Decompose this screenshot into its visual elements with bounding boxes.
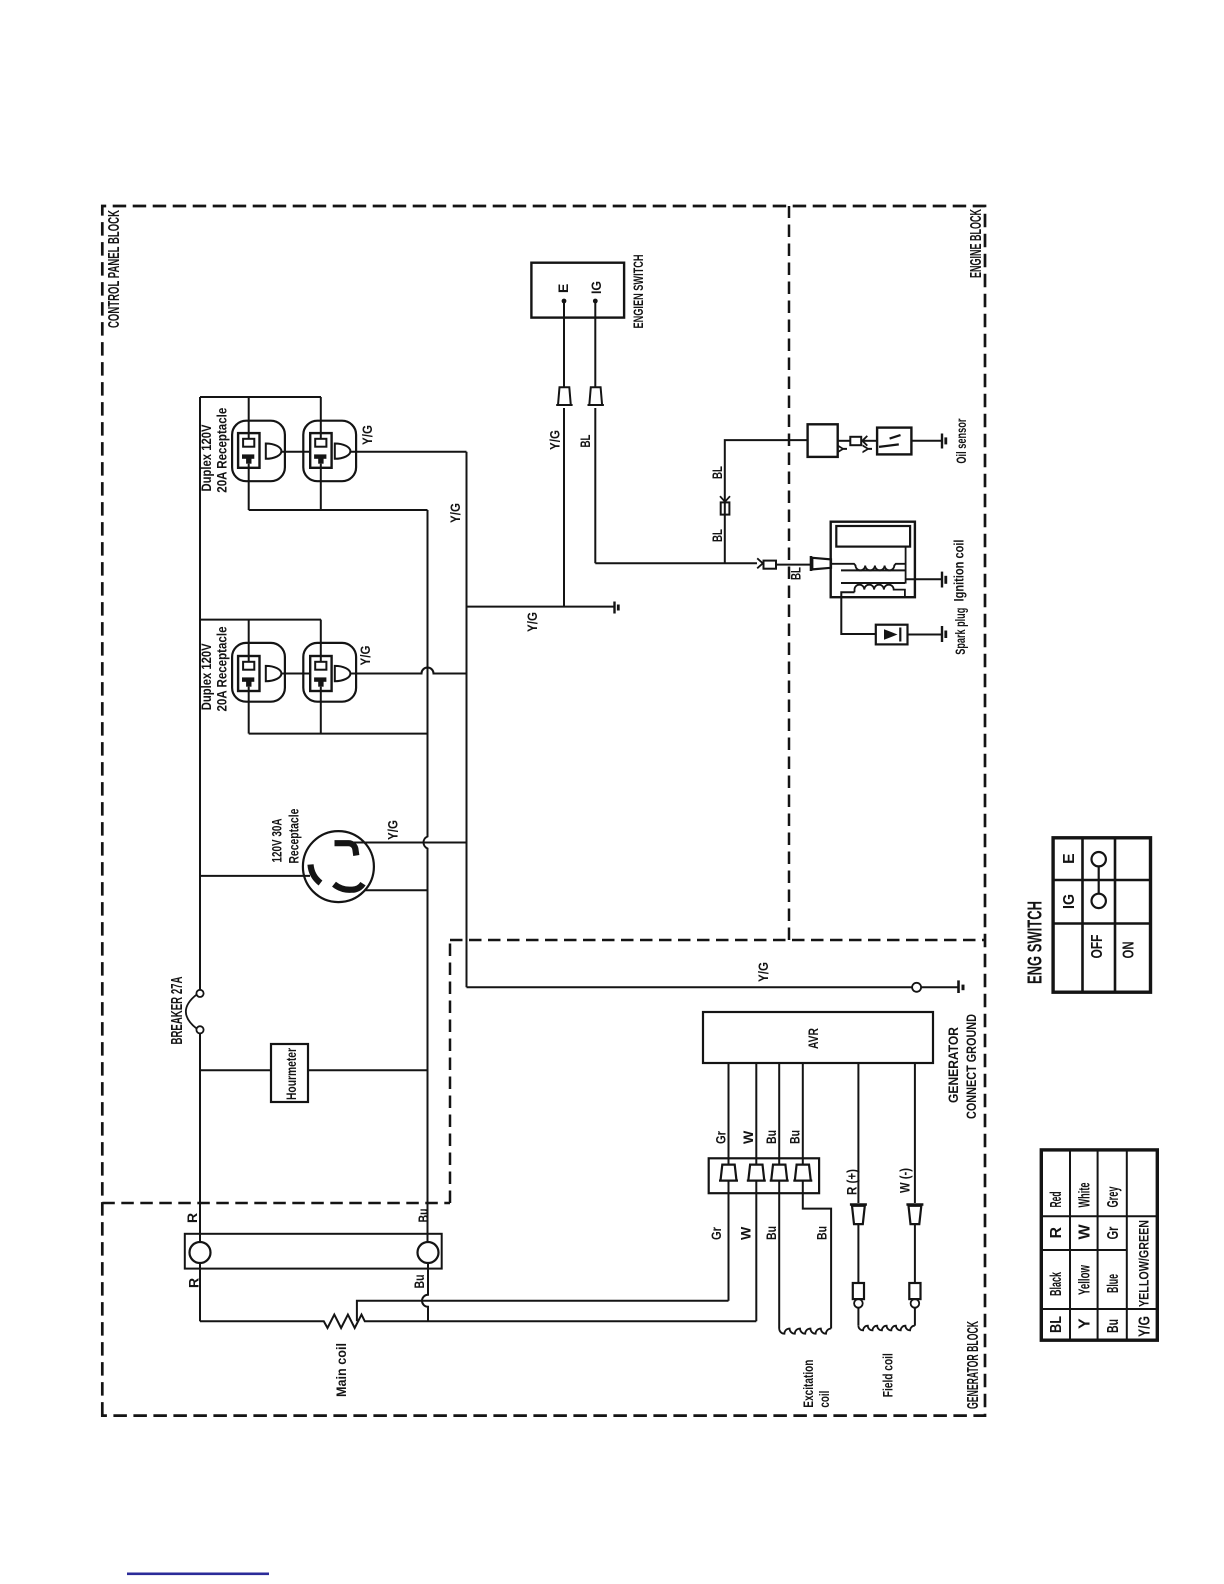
svg-text:W: W <box>738 1226 754 1240</box>
wire R rail (hot) from terminal strip to duplex 1 feeder <box>199 397 201 1242</box>
30A receptacle blade slot upper <box>311 865 321 884</box>
oil sensor unit box <box>808 424 838 457</box>
connector R+ bullet flange <box>850 1203 867 1206</box>
30A receptacle blade slot right hook <box>335 843 357 855</box>
wire duplex 1 right feeder from R rail <box>200 396 321 398</box>
wire BL branch tee to oil sensor <box>725 440 808 563</box>
duplex 2 outlet C slot frame <box>238 656 259 691</box>
svg-text:Y/G: Y/G <box>524 612 540 632</box>
connector branch male rect <box>721 502 730 514</box>
generator connect ground symbol <box>957 980 960 993</box>
svg-text:Ignition coil: Ignition coil <box>951 540 967 602</box>
duplex 2 outlet C ground D slot <box>266 666 282 681</box>
duplex 2 outlet D body <box>303 643 356 702</box>
blue underline mark bottom-left <box>127 1573 269 1576</box>
wire duplex 1 branch to outlet B <box>320 397 322 439</box>
connector BL male rect <box>764 561 777 569</box>
duplex 1 outlet B ground D slot <box>335 444 351 459</box>
svg-text:Field coil: Field coil <box>880 1353 896 1397</box>
connector R+ lower circle <box>854 1299 863 1308</box>
wire duplex 1 branch to outlet A <box>248 397 250 439</box>
svg-text:AVR: AVR <box>805 1028 821 1049</box>
ignition coil core lines <box>841 570 905 583</box>
svg-text:R: R <box>184 1213 200 1223</box>
terminal Bu circle <box>418 1242 439 1263</box>
connector pin Bu4 <box>793 1165 812 1181</box>
hourmeter box <box>271 1044 308 1102</box>
wire Gr left of block to main coil tap <box>728 1193 730 1301</box>
wire W- connector to lower connector <box>914 1224 916 1283</box>
wire Bu4 jog to excitation coil <box>803 1193 831 1328</box>
wire duplex 1 left feeder to Bu rail <box>249 509 428 511</box>
legend table border <box>1041 1150 1157 1340</box>
oil switch box <box>877 428 911 455</box>
connector IG bullet <box>588 387 604 405</box>
connector pin W <box>747 1165 766 1181</box>
excitation coil winding <box>779 1329 831 1334</box>
svg-text:Bu: Bu <box>763 1130 779 1144</box>
connector oil arrow <box>862 436 867 446</box>
wire 30A Bu drop to Bu rail <box>364 889 427 891</box>
generator ground circle <box>912 983 921 992</box>
svg-text:Y: Y <box>859 444 875 454</box>
switch contact circle IG <box>1092 894 1106 908</box>
oil switch contact <box>879 435 901 447</box>
wire duplex 2 outlet C neutral <box>248 687 250 734</box>
svg-text:Y/G: Y/G <box>547 430 563 450</box>
wire Bu4 from AVR through connector <box>802 1063 804 1193</box>
connector BL arrow <box>757 558 763 568</box>
terminal R circle <box>190 1242 211 1263</box>
svg-text:BREAKER 27A: BREAKER 27A <box>169 976 186 1044</box>
duplex 1 outlet B T slot <box>314 454 326 458</box>
duplex 2 outlet D ground D slot <box>335 666 351 681</box>
duplex 1 outlet B neutral slot <box>315 439 326 447</box>
svg-text:Duplex 120V: Duplex 120V <box>198 643 214 711</box>
svg-text:Gr: Gr <box>713 1131 729 1144</box>
field coil winding <box>858 1326 914 1331</box>
svg-text:Bu: Bu <box>787 1130 803 1144</box>
wire Y/G generator drop to ground <box>467 986 913 988</box>
wire E Y/G to ground tee <box>563 408 565 607</box>
svg-text:OFF: OFF <box>1089 934 1106 958</box>
svg-text:IG: IG <box>588 281 604 294</box>
wire 30A R feed from R rail <box>200 875 310 877</box>
wire E from switch to connector <box>563 301 565 387</box>
svg-text:BL: BL <box>709 529 725 542</box>
duplex 2 outlet D neutral slot <box>315 662 326 670</box>
svg-text:Gr: Gr <box>708 1227 724 1240</box>
wire duplex 1 ground to Y/G rail <box>350 451 466 453</box>
ignition coil interior junction line <box>905 547 907 583</box>
ground symbol 1 <box>613 602 615 614</box>
wire Gr tap from main coil <box>357 1301 729 1322</box>
AVR box <box>703 1012 933 1063</box>
terminal strip <box>185 1234 442 1269</box>
dashed divider generator block horizontal <box>449 940 452 1203</box>
svg-text:CONTROL PANEL BLOCK: CONTROL PANEL BLOCK <box>106 210 123 328</box>
wire R+ to field coil <box>857 1308 859 1326</box>
outer dashed border: CONTROL PANEL / ENGINE / GENERATOR blocks <box>102 206 985 1416</box>
svg-text:CONNECT GROUND: CONNECT GROUND <box>963 1014 979 1119</box>
wire below ground circle <box>921 986 958 988</box>
svg-text:Black: Black <box>1048 1272 1065 1296</box>
connector oil male rect <box>850 437 861 445</box>
connector E bullet <box>556 387 572 405</box>
duplex 2 outlet D T slot <box>314 677 326 681</box>
svg-text:Bu: Bu <box>411 1275 427 1289</box>
svg-text:Y: Y <box>834 444 850 454</box>
spark plug triangle <box>884 629 898 640</box>
eng switch table grid <box>1053 838 1150 992</box>
duplex 2 outlet C T slot <box>242 677 254 681</box>
svg-text:IG: IG <box>1061 894 1078 909</box>
dashed divider generator block vertical <box>102 1202 450 1205</box>
ignition ground symbol <box>941 572 943 588</box>
connector W- lower circle <box>911 1299 920 1308</box>
duplex 2 outlet D slot frame <box>310 656 331 691</box>
wire W- to field coil <box>914 1308 916 1326</box>
dashed divider vertical at x=644 <box>450 939 985 942</box>
duplex 1 outlet A slot frame <box>238 433 259 468</box>
wire duplex 2 branch to outlet D <box>320 620 322 662</box>
svg-text:Bu: Bu <box>415 1209 431 1223</box>
svg-text:Gr: Gr <box>1105 1227 1122 1240</box>
ignition coil outer box <box>831 522 915 598</box>
wire hourmeter to R rail <box>200 1069 271 1071</box>
duplex 2 outlet C body <box>232 643 285 702</box>
svg-text:Duplex 120V: Duplex 120V <box>198 424 214 492</box>
wire R+ from AVR <box>857 1063 859 1203</box>
svg-text:Y/G: Y/G <box>359 425 375 445</box>
wire W- from AVR <box>914 1063 916 1203</box>
svg-text:R (+): R (+) <box>844 1169 860 1195</box>
wire connector to oil switch box <box>863 440 877 442</box>
wire W left of block to main coil end <box>755 1193 757 1321</box>
svg-text:W: W <box>740 1130 756 1144</box>
duplex 1 outlet A ground D slot <box>266 444 282 459</box>
wire W from AVR through connector <box>755 1063 757 1193</box>
duplex 1 outlet A neutral slot <box>243 439 254 447</box>
svg-text:20A Receptacle: 20A Receptacle <box>214 626 230 711</box>
switch contact circle E <box>1092 852 1106 866</box>
svg-text:BL: BL <box>709 466 725 479</box>
svg-text:Y: Y <box>1077 1318 1094 1329</box>
wire IG from switch to connector <box>594 301 596 387</box>
connector BL ignition bullet body <box>812 558 831 570</box>
connector block rect <box>709 1158 819 1193</box>
wire duplex 1 ground link A-B <box>281 451 310 453</box>
svg-text:Red: Red <box>1048 1192 1065 1208</box>
svg-text:Y/G: Y/G <box>1137 1316 1154 1337</box>
svg-text:R: R <box>1048 1227 1065 1239</box>
spark plug ground symbol <box>941 626 943 642</box>
svg-text:YELLOW/GREEN: YELLOW/GREEN <box>1136 1220 1152 1307</box>
connector W- lower rect <box>909 1283 920 1299</box>
connector pin Bu3 <box>770 1165 789 1181</box>
wire BL to ignition coil connector <box>776 564 810 566</box>
wire Y/G rail <box>466 452 468 988</box>
duplex 1 outlet B slot frame <box>310 433 331 468</box>
connector W- bullet flange <box>906 1203 923 1206</box>
wire duplex 2 ground to Y/G rail with hop over Bu rail <box>350 668 466 674</box>
wire hourmeter to Bu rail <box>308 1069 428 1071</box>
30A receptacle blade slot lower-left <box>334 884 363 890</box>
connector R+ lower rect <box>853 1283 864 1299</box>
dashed divider control-panel / engine block <box>788 206 791 940</box>
node E terminal dot <box>562 299 567 304</box>
svg-text:Bu: Bu <box>763 1226 779 1240</box>
ignition coil primary winding <box>831 564 906 571</box>
svg-text:BL: BL <box>577 434 593 447</box>
ignition coil inner rect <box>836 526 910 547</box>
svg-text:20A Receptacle: 20A Receptacle <box>214 408 230 493</box>
wire spark plug to ground <box>908 634 942 636</box>
wire oil sensor box to connector <box>838 440 851 442</box>
wire duplex 2 outlet D neutral <box>320 687 322 734</box>
svg-text:Spark plug: Spark plug <box>952 608 968 655</box>
wire BL vertical drop <box>595 562 757 564</box>
eng switch table border <box>1053 838 1150 992</box>
wire duplex 2 left feeder to Bu rail <box>249 733 428 735</box>
wire ground line 1 vertical <box>467 606 615 608</box>
svg-text:W: W <box>1077 1224 1094 1240</box>
spark plug bar <box>899 628 901 642</box>
svg-text:Excitation: Excitation <box>800 1360 816 1408</box>
svg-text:120V 30A: 120V 30A <box>269 819 285 863</box>
svg-text:GENERATOR: GENERATOR <box>945 1027 961 1103</box>
svg-text:Hourmeter: Hourmeter <box>283 1048 299 1100</box>
wire R+ connector to lower connector <box>857 1224 859 1283</box>
wire duplex 2 branch to outlet C <box>248 620 250 662</box>
wire duplex 2 right feeder from R rail <box>200 619 321 621</box>
main coil vertical with zigzag <box>200 1315 756 1328</box>
duplex 2 outlet C neutral slot <box>243 662 254 670</box>
duplex 1 outlet B body <box>303 421 356 482</box>
wire Bu rail left of strip with hop over Gr wire <box>422 1263 428 1321</box>
wire Bu3 left of block to excitation coil <box>778 1193 780 1328</box>
svg-text:Y/G: Y/G <box>755 962 771 982</box>
wire ignition HT output to ground <box>906 578 942 580</box>
svg-text:coil: coil <box>816 1391 832 1408</box>
svg-text:ENGIEN SWITCH: ENGIEN SWITCH <box>630 255 646 329</box>
connector W- bullet body <box>909 1206 922 1224</box>
engine switch box <box>531 263 624 318</box>
duplex 1 outlet A T slot <box>242 454 254 458</box>
svg-text:Blue: Blue <box>1105 1274 1122 1293</box>
wire duplex 1 outlet B neutral <box>320 464 322 510</box>
svg-text:Grey: Grey <box>1105 1186 1122 1207</box>
svg-text:GENERATOR BLOCK: GENERATOR BLOCK <box>965 1321 982 1409</box>
svg-text:E: E <box>1061 853 1078 864</box>
oil sensor ground symbol <box>941 434 943 449</box>
node IG terminal dot <box>593 299 598 304</box>
ignition coil secondary winding <box>855 585 905 598</box>
svg-text:Y/G: Y/G <box>357 645 373 665</box>
wire duplex 1 outlet A neutral <box>248 464 250 510</box>
svg-text:ENG SWITCH: ENG SWITCH <box>1025 901 1047 984</box>
svg-text:Oil sensor: Oil sensor <box>953 418 969 463</box>
breaker 27A circles and arc <box>196 1026 203 1033</box>
connector R+ bullet body <box>852 1206 865 1224</box>
svg-text:ON: ON <box>1121 942 1138 959</box>
wire ignition secondary top to spark line <box>841 592 876 634</box>
wire 30A Y/G drop to Y/G rail <box>354 842 467 844</box>
legend table grid <box>1041 1150 1157 1340</box>
connector branch arrow <box>720 496 730 502</box>
spark plug box <box>876 625 908 645</box>
connector pin Gr <box>719 1165 738 1181</box>
wire R rail left of strip to main coil corner <box>199 1263 201 1321</box>
svg-text:BL: BL <box>1048 1316 1065 1333</box>
svg-text:Receptacle: Receptacle <box>286 808 302 863</box>
svg-text:Yellow: Yellow <box>1077 1265 1094 1295</box>
svg-text:Y/G: Y/G <box>385 820 401 840</box>
svg-text:Y/G: Y/G <box>447 503 463 523</box>
wire Gr from AVR through connector <box>728 1063 730 1193</box>
wire Bu3 from AVR through connector <box>778 1063 780 1193</box>
svg-text:BL: BL <box>788 567 804 580</box>
svg-text:Main coil: Main coil <box>333 1343 349 1397</box>
svg-text:W (-): W (-) <box>897 1168 913 1193</box>
wire IG BL horizontal <box>594 408 596 563</box>
connector BL ignition bullet flange <box>810 556 813 571</box>
120V 30A twist-lock receptacle circle <box>303 831 374 902</box>
wire duplex 2 ground link C-D <box>281 673 310 675</box>
svg-text:ENGINE BLOCK: ENGINE BLOCK <box>968 209 985 278</box>
svg-text:Bu: Bu <box>1105 1319 1122 1333</box>
wire Bu rail: duplex1 feeder to terminal strip <box>423 510 427 1242</box>
svg-text:E: E <box>555 284 571 293</box>
svg-text:Bu: Bu <box>814 1226 830 1240</box>
switch contact link <box>1098 866 1100 893</box>
duplex 1 outlet A body <box>232 421 285 482</box>
wire oil switch to ground <box>911 440 941 442</box>
svg-text:White: White <box>1077 1182 1094 1207</box>
